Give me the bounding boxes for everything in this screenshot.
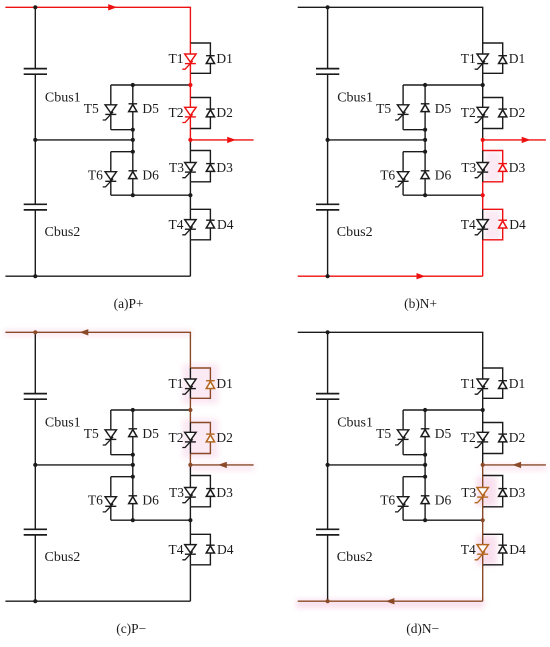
node D5 lower junction — [423, 128, 427, 132]
wire chain T2-output segment — [189, 129, 191, 140]
halo D3 loop — [485, 152, 501, 182]
svg-text:Cbus2: Cbus2 — [337, 225, 373, 240]
wire T6 branch vertical — [402, 152, 404, 196]
wire chain bottom segment — [189, 565, 191, 601]
svg-text:D1: D1 — [216, 376, 233, 391]
current arrow bottom rail — [386, 598, 395, 604]
wire clamp vertical D5-D6 — [132, 410, 134, 520]
svg-text:D2: D2 — [216, 105, 233, 120]
halo T2 D2 loop — [182, 419, 218, 459]
wire chain output-T3 segment — [189, 140, 191, 151]
wire output phase — [190, 464, 253, 466]
svg-text:D2: D2 — [509, 105, 525, 120]
node neutral clamp junction — [131, 463, 135, 467]
svg-text:T4: T4 — [461, 542, 476, 557]
wire chain bottom segment — [482, 565, 484, 601]
wire T4 branch — [482, 209, 484, 240]
node output junction — [188, 138, 192, 142]
wire chain T3-T4 segment — [482, 182, 484, 210]
node clamp top junction — [423, 408, 427, 412]
current arrow output — [522, 137, 531, 143]
node T1-T2 junction — [188, 408, 192, 412]
wire T1 branch — [482, 368, 484, 398]
wire T5 branch vertical — [110, 410, 112, 455]
wire chain T2-output segment — [189, 454, 191, 465]
svg-text:D1: D1 — [509, 51, 525, 66]
svg-text:T2: T2 — [461, 430, 476, 445]
svg-text:D1: D1 — [216, 51, 233, 66]
wire D4 branch loop — [190, 209, 210, 240]
svg-text:T6: T6 — [88, 167, 103, 182]
transistor T6 — [395, 497, 409, 512]
wire chain top segment — [189, 7, 191, 43]
svg-text:T3: T3 — [169, 485, 184, 500]
subfigure (d) N- conduction state — [296, 330, 546, 636]
node output junction — [481, 463, 485, 467]
transistor T4 — [475, 545, 489, 560]
subfigure (a) P+ conduction state — [5, 4, 253, 311]
diode D4 — [498, 545, 507, 553]
wire T1 branch — [482, 43, 484, 73]
wire T2 branch — [482, 423, 484, 454]
subfigure (b) N+ conduction state — [298, 5, 546, 311]
svg-text:D6: D6 — [142, 167, 159, 182]
wire D2 branch loop — [190, 98, 210, 129]
svg-text:(c)P−: (c)P− — [116, 621, 146, 636]
halo T1 D1 loop — [182, 364, 218, 404]
wire output phase — [190, 139, 253, 141]
wire chain output-T3 segment — [189, 465, 191, 476]
svg-text:D4: D4 — [217, 542, 234, 557]
wire left DC-link rail lower — [34, 210, 36, 276]
wire T1 branch — [189, 368, 191, 398]
wire D1 branch loop — [190, 43, 210, 73]
transistor T2 — [475, 432, 489, 447]
svg-text:D1: D1 — [509, 376, 525, 391]
transistor T1 — [475, 379, 489, 394]
node T1-T2 junction — [481, 83, 485, 87]
diode D5 — [421, 429, 430, 437]
wire clamp vertical D5-D6 — [424, 85, 426, 195]
diode D3 — [206, 489, 215, 497]
node output junction — [188, 463, 192, 467]
diode D6 — [421, 496, 430, 504]
wire D2 branch loop — [483, 98, 503, 129]
halo T3 loop — [477, 477, 497, 507]
wire output phase — [483, 139, 546, 141]
wire T4 branch — [189, 534, 191, 565]
node D5 lower junction — [423, 453, 427, 457]
diode D4 — [498, 220, 507, 228]
diode D6 — [129, 496, 138, 504]
wire left DC-link rail lower — [327, 210, 329, 276]
transistor T2 — [475, 107, 489, 122]
wire top rail horizontal — [5, 6, 191, 8]
wire output phase — [483, 464, 546, 466]
wire clamp vertical D5-D6 — [424, 410, 426, 520]
wire bottom rail horizontal — [298, 275, 483, 277]
wire T5 loop top — [403, 84, 483, 86]
wire neutral midpoint horizontal — [35, 464, 133, 466]
wire D4 branch loop — [483, 534, 503, 565]
wire D1 branch loop — [483, 43, 503, 73]
wire T5 loop top — [111, 84, 191, 86]
svg-text:(b)N+: (b)N+ — [404, 296, 437, 311]
transistor T1 — [475, 54, 489, 69]
svg-text:T2: T2 — [169, 105, 184, 120]
diode D5 — [129, 104, 138, 112]
diode D1 — [206, 56, 215, 64]
diode D1 — [498, 381, 507, 389]
svg-text:T3: T3 — [169, 160, 184, 175]
wire T5 loop bottom — [111, 454, 133, 456]
diode D3 — [498, 164, 507, 172]
wire chain top segment — [189, 332, 191, 368]
wire D1 branch loop — [190, 368, 210, 398]
wire T2 branch — [189, 423, 191, 454]
wire D3 branch loop — [190, 476, 210, 507]
node T3-T4 junction — [188, 518, 192, 522]
node N rail junction — [33, 274, 37, 278]
diode D1 — [206, 381, 215, 389]
svg-text:Cbus2: Cbus2 — [45, 550, 81, 565]
node D6 upper junction — [423, 150, 427, 154]
svg-text:T2: T2 — [461, 105, 476, 120]
svg-text:(a)P+: (a)P+ — [114, 296, 144, 311]
diode D4 — [206, 545, 215, 553]
wire T5 loop top — [403, 409, 483, 411]
svg-text:T6: T6 — [380, 492, 395, 507]
node D5 lower junction — [131, 453, 135, 457]
wire T3 branch — [482, 151, 484, 182]
wire D3 branch loop — [483, 151, 503, 182]
node clamp bottom junction — [423, 193, 427, 197]
wire D3 branch loop — [483, 476, 503, 507]
wire T5 branch vertical — [402, 85, 404, 130]
wire D4 branch loop — [483, 209, 503, 240]
node clamp top junction — [131, 83, 135, 87]
wire left DC-link rail lower — [327, 535, 329, 601]
wire left DC-link rail middle — [34, 399, 36, 529]
current arrow top rail — [108, 4, 117, 10]
node clamp top junction — [131, 408, 135, 412]
wire chain output-T3 segment — [482, 140, 484, 151]
wire left DC-link rail upper — [327, 7, 329, 68]
wire bottom rail horizontal — [5, 600, 190, 602]
svg-text:T5: T5 — [376, 101, 391, 116]
diode D1 — [498, 56, 507, 64]
svg-text:Cbus1: Cbus1 — [337, 90, 373, 105]
node P rail junction — [33, 330, 37, 334]
diode D3 — [206, 164, 215, 172]
capacitor Cbus1 — [24, 394, 47, 400]
wire T5 branch vertical — [110, 85, 112, 130]
diode D4 — [206, 220, 215, 228]
svg-text:D6: D6 — [142, 492, 159, 507]
svg-text:Cbus1: Cbus1 — [45, 415, 81, 430]
svg-text:D2: D2 — [509, 430, 525, 445]
wire T6 branch vertical — [402, 477, 404, 521]
svg-text:Cbus1: Cbus1 — [45, 90, 81, 105]
wire chain T1-T2 segment — [189, 73, 191, 97]
wire neutral midpoint horizontal — [328, 464, 426, 466]
wire T5 loop bottom — [403, 454, 425, 456]
transistor T5 — [395, 430, 409, 445]
current arrow output — [227, 137, 236, 143]
wire T4 branch — [482, 534, 484, 565]
node N rail junction — [326, 599, 330, 603]
node T3-T4 junction — [188, 193, 192, 197]
wire chain T1-T2 segment — [482, 398, 484, 422]
wire T3 branch — [189, 151, 191, 182]
svg-text:T6: T6 — [88, 492, 103, 507]
wire D2 branch loop — [190, 423, 210, 454]
wire chain T1-T2 segment — [482, 73, 484, 97]
capacitor Cbus2 — [24, 204, 47, 210]
current arrow output — [512, 462, 521, 468]
wire T5 branch vertical — [402, 410, 404, 455]
wire clamp vertical D5-D6 — [132, 85, 134, 195]
wire T1 branch — [189, 43, 191, 73]
wire T6 loop bottom — [111, 194, 191, 196]
wire T6 loop top — [111, 476, 133, 478]
capacitor Cbus2 — [24, 529, 47, 535]
transistor T3 — [475, 163, 489, 178]
node D6 upper junction — [423, 475, 427, 479]
wire left DC-link rail upper — [34, 7, 36, 68]
transistor T5 — [103, 105, 117, 120]
node clamp bottom junction — [423, 518, 427, 522]
node P rail junction — [33, 5, 37, 9]
transistor T3 — [475, 488, 489, 503]
svg-text:Cbus1: Cbus1 — [337, 415, 373, 430]
diode D5 — [129, 429, 138, 437]
node N rail junction — [326, 274, 330, 278]
wire D2 branch loop — [483, 423, 503, 454]
wire top rail horizontal — [298, 331, 484, 333]
transistor T5 — [395, 105, 409, 120]
wire chain T2-output segment — [482, 454, 484, 465]
node D6 upper junction — [131, 150, 135, 154]
wire T3 branch — [482, 476, 484, 507]
wire chain bottom segment — [482, 240, 484, 276]
node clamp top junction — [423, 83, 427, 87]
svg-text:T4: T4 — [169, 217, 184, 232]
wire T5 loop bottom — [403, 129, 425, 131]
svg-text:T5: T5 — [376, 426, 391, 441]
svg-text:T2: T2 — [169, 430, 184, 445]
svg-text:D3: D3 — [509, 160, 526, 175]
wire left DC-link rail upper — [34, 332, 36, 393]
node T3-T4 junction — [481, 518, 485, 522]
svg-text:Cbus2: Cbus2 — [337, 550, 373, 565]
wire T6 branch vertical — [110, 477, 112, 521]
node neutral rail junction — [326, 463, 330, 467]
svg-text:D5: D5 — [142, 426, 159, 441]
transistor T1 — [182, 379, 196, 394]
capacitor Cbus2 — [316, 529, 339, 535]
diode D2 — [206, 109, 215, 117]
node D6 upper junction — [131, 475, 135, 479]
wire T3 branch — [189, 476, 191, 507]
svg-text:T4: T4 — [169, 542, 184, 557]
current arrow top rail — [80, 329, 89, 335]
svg-text:T1: T1 — [169, 51, 184, 66]
wire left DC-link rail middle — [327, 74, 329, 204]
wire chain top segment — [482, 7, 484, 43]
capacitor Cbus1 — [24, 69, 47, 75]
halo T4 loop — [477, 535, 497, 565]
svg-text:D3: D3 — [509, 485, 526, 500]
svg-text:D6: D6 — [435, 167, 452, 182]
transistor T6 — [103, 497, 117, 512]
svg-text:D5: D5 — [435, 101, 452, 116]
wire chain T3-T4 segment — [189, 507, 191, 535]
wire top rail horizontal — [298, 6, 484, 8]
current arrow bottom rail — [417, 273, 426, 279]
node neutral rail junction — [326, 138, 330, 142]
wire T6 loop bottom — [403, 519, 483, 521]
transistor T1 — [182, 54, 196, 69]
svg-text:T3: T3 — [461, 160, 476, 175]
svg-text:D5: D5 — [435, 426, 452, 441]
wire T6 loop bottom — [111, 519, 191, 521]
svg-text:D3: D3 — [216, 485, 233, 500]
wire D4 branch loop — [190, 534, 210, 565]
svg-text:T3: T3 — [461, 485, 476, 500]
svg-text:D4: D4 — [217, 217, 234, 232]
svg-text:D2: D2 — [216, 430, 233, 445]
transistor T4 — [182, 220, 196, 235]
node neutral rail junction — [33, 138, 37, 142]
wire T5 loop top — [111, 409, 191, 411]
svg-text:(d)N−: (d)N− — [406, 621, 439, 636]
wire T6 loop top — [403, 476, 425, 478]
wire T2 branch — [189, 98, 191, 129]
svg-text:D5: D5 — [142, 101, 159, 116]
transistor T4 — [475, 220, 489, 235]
node clamp bottom junction — [131, 193, 135, 197]
capacitor Cbus1 — [316, 69, 339, 75]
wire T5 loop bottom — [111, 129, 133, 131]
node neutral rail junction — [33, 463, 37, 467]
diode D2 — [498, 434, 507, 442]
node N rail junction — [33, 599, 37, 603]
diode D2 — [206, 434, 215, 442]
node D5 lower junction — [131, 128, 135, 132]
transistor T2 — [182, 107, 196, 122]
node neutral clamp junction — [423, 138, 427, 142]
wire D3 branch loop — [190, 151, 210, 182]
node output junction — [481, 138, 485, 142]
wire chain T2-output segment — [482, 129, 484, 140]
svg-text:T1: T1 — [461, 376, 476, 391]
current arrow output — [218, 462, 227, 468]
wire chain bottom segment — [189, 240, 191, 276]
wire left DC-link rail lower — [34, 535, 36, 601]
svg-text:Cbus2: Cbus2 — [45, 225, 81, 240]
wire chain T3-T4 segment — [189, 182, 191, 210]
transistor T6 — [395, 172, 409, 187]
wire left DC-link rail upper — [327, 332, 329, 393]
svg-text:T1: T1 — [461, 51, 476, 66]
svg-text:D6: D6 — [435, 492, 452, 507]
halo bottom wire — [296, 599, 484, 608]
halo output wire — [188, 464, 254, 471]
wire left DC-link rail middle — [34, 74, 36, 204]
wire chain T1-T2 segment — [189, 398, 191, 422]
transistor T3 — [182, 163, 196, 178]
wire T2 branch — [482, 98, 484, 129]
transistor T3 — [182, 488, 196, 503]
wire left DC-link rail middle — [327, 399, 329, 529]
svg-text:D3: D3 — [216, 160, 233, 175]
wire neutral midpoint horizontal — [328, 139, 426, 141]
wire T6 loop top — [403, 151, 425, 153]
diode D6 — [421, 171, 430, 179]
wire top rail horizontal — [5, 331, 191, 333]
halo top wire — [4, 329, 192, 336]
subfigure (c) P- conduction state — [4, 329, 254, 636]
svg-text:T1: T1 — [169, 376, 184, 391]
diode D2 — [498, 109, 507, 117]
wire chain T3-T4 segment — [482, 507, 484, 535]
wire T6 branch vertical — [110, 152, 112, 196]
node P rail junction — [326, 5, 330, 9]
svg-text:T4: T4 — [461, 217, 476, 232]
capacitor Cbus2 — [316, 204, 339, 210]
svg-text:D4: D4 — [509, 542, 526, 557]
halo output wire — [481, 464, 547, 471]
svg-text:D4: D4 — [509, 217, 526, 232]
transistor T5 — [103, 430, 117, 445]
node T1-T2 junction — [188, 83, 192, 87]
wire T6 loop top — [111, 151, 133, 153]
diode D6 — [129, 171, 138, 179]
wire T4 branch — [189, 209, 191, 240]
halo D4 loop — [485, 210, 501, 240]
node neutral clamp junction — [423, 463, 427, 467]
diode D3 — [498, 489, 507, 497]
svg-text:T5: T5 — [84, 426, 99, 441]
node T3-T4 junction — [481, 193, 485, 197]
diode D5 — [421, 104, 430, 112]
node clamp bottom junction — [131, 518, 135, 522]
transistor T6 — [103, 172, 117, 187]
wire chain output-T3 segment — [482, 465, 484, 476]
capacitor Cbus1 — [316, 394, 339, 400]
wire T6 loop bottom — [403, 194, 483, 196]
transistor T2 — [182, 432, 196, 447]
node neutral clamp junction — [131, 138, 135, 142]
svg-text:T5: T5 — [84, 101, 99, 116]
wire bottom rail horizontal — [5, 275, 190, 277]
transistor T4 — [182, 545, 196, 560]
wire chain top segment — [482, 332, 484, 368]
wire D1 branch loop — [483, 368, 503, 398]
node T1-T2 junction — [481, 408, 485, 412]
wire neutral midpoint horizontal — [35, 139, 133, 141]
wire bottom rail horizontal — [298, 600, 483, 602]
node P rail junction — [326, 330, 330, 334]
svg-text:T6: T6 — [380, 167, 395, 182]
